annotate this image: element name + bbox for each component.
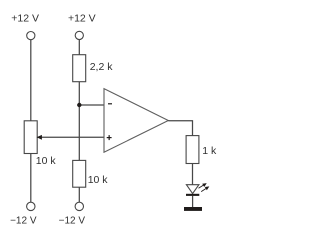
svg-text:1 k: 1 k	[202, 145, 217, 157]
terminal +12V middle	[75, 31, 83, 39]
LED light arrow 2	[201, 187, 208, 192]
wiper arrowhead	[37, 135, 42, 140]
op-amp plus sign	[107, 135, 112, 140]
wire left rail lower	[30, 154, 32, 203]
LED light arrow 1	[199, 184, 206, 189]
svg-text:2,2 k: 2,2 k	[90, 61, 114, 73]
resistor R1 2,2k body	[73, 55, 86, 82]
wire left rail upper	[30, 40, 32, 121]
op-amp minus sign	[108, 103, 112, 105]
svg-text:+12 V: +12 V	[68, 13, 96, 25]
ground	[184, 207, 202, 211]
svg-text:−12 V: −12 V	[10, 216, 37, 227]
LED cathode bar	[186, 194, 199, 196]
wire inverting input	[79, 104, 104, 106]
wire middle rail top	[78, 40, 80, 55]
resistor R2 10k body	[73, 160, 86, 187]
wire wiper to noninverting input	[37, 136, 104, 138]
LED D1 body	[186, 185, 199, 194]
svg-text:10 k: 10 k	[36, 155, 57, 167]
terminal -12V left	[27, 202, 35, 210]
svg-text:−12 V: −12 V	[59, 216, 86, 227]
wire output horizontal	[168, 121, 192, 136]
svg-text:10 k: 10 k	[88, 174, 109, 186]
node junction dot	[77, 103, 81, 107]
potentiometer P1 10k body	[24, 121, 37, 154]
op-amp U1	[104, 89, 168, 153]
resistor R3 1k body	[186, 136, 199, 164]
terminal -12V middle	[75, 202, 83, 210]
wire LED to ground	[192, 196, 194, 207]
wire output to LED	[192, 164, 194, 185]
wire middle rail bottom	[78, 187, 80, 202]
svg-text:+12 V: +12 V	[11, 13, 39, 25]
wire middle rail mid	[78, 82, 80, 161]
terminal +12V left	[27, 31, 35, 39]
